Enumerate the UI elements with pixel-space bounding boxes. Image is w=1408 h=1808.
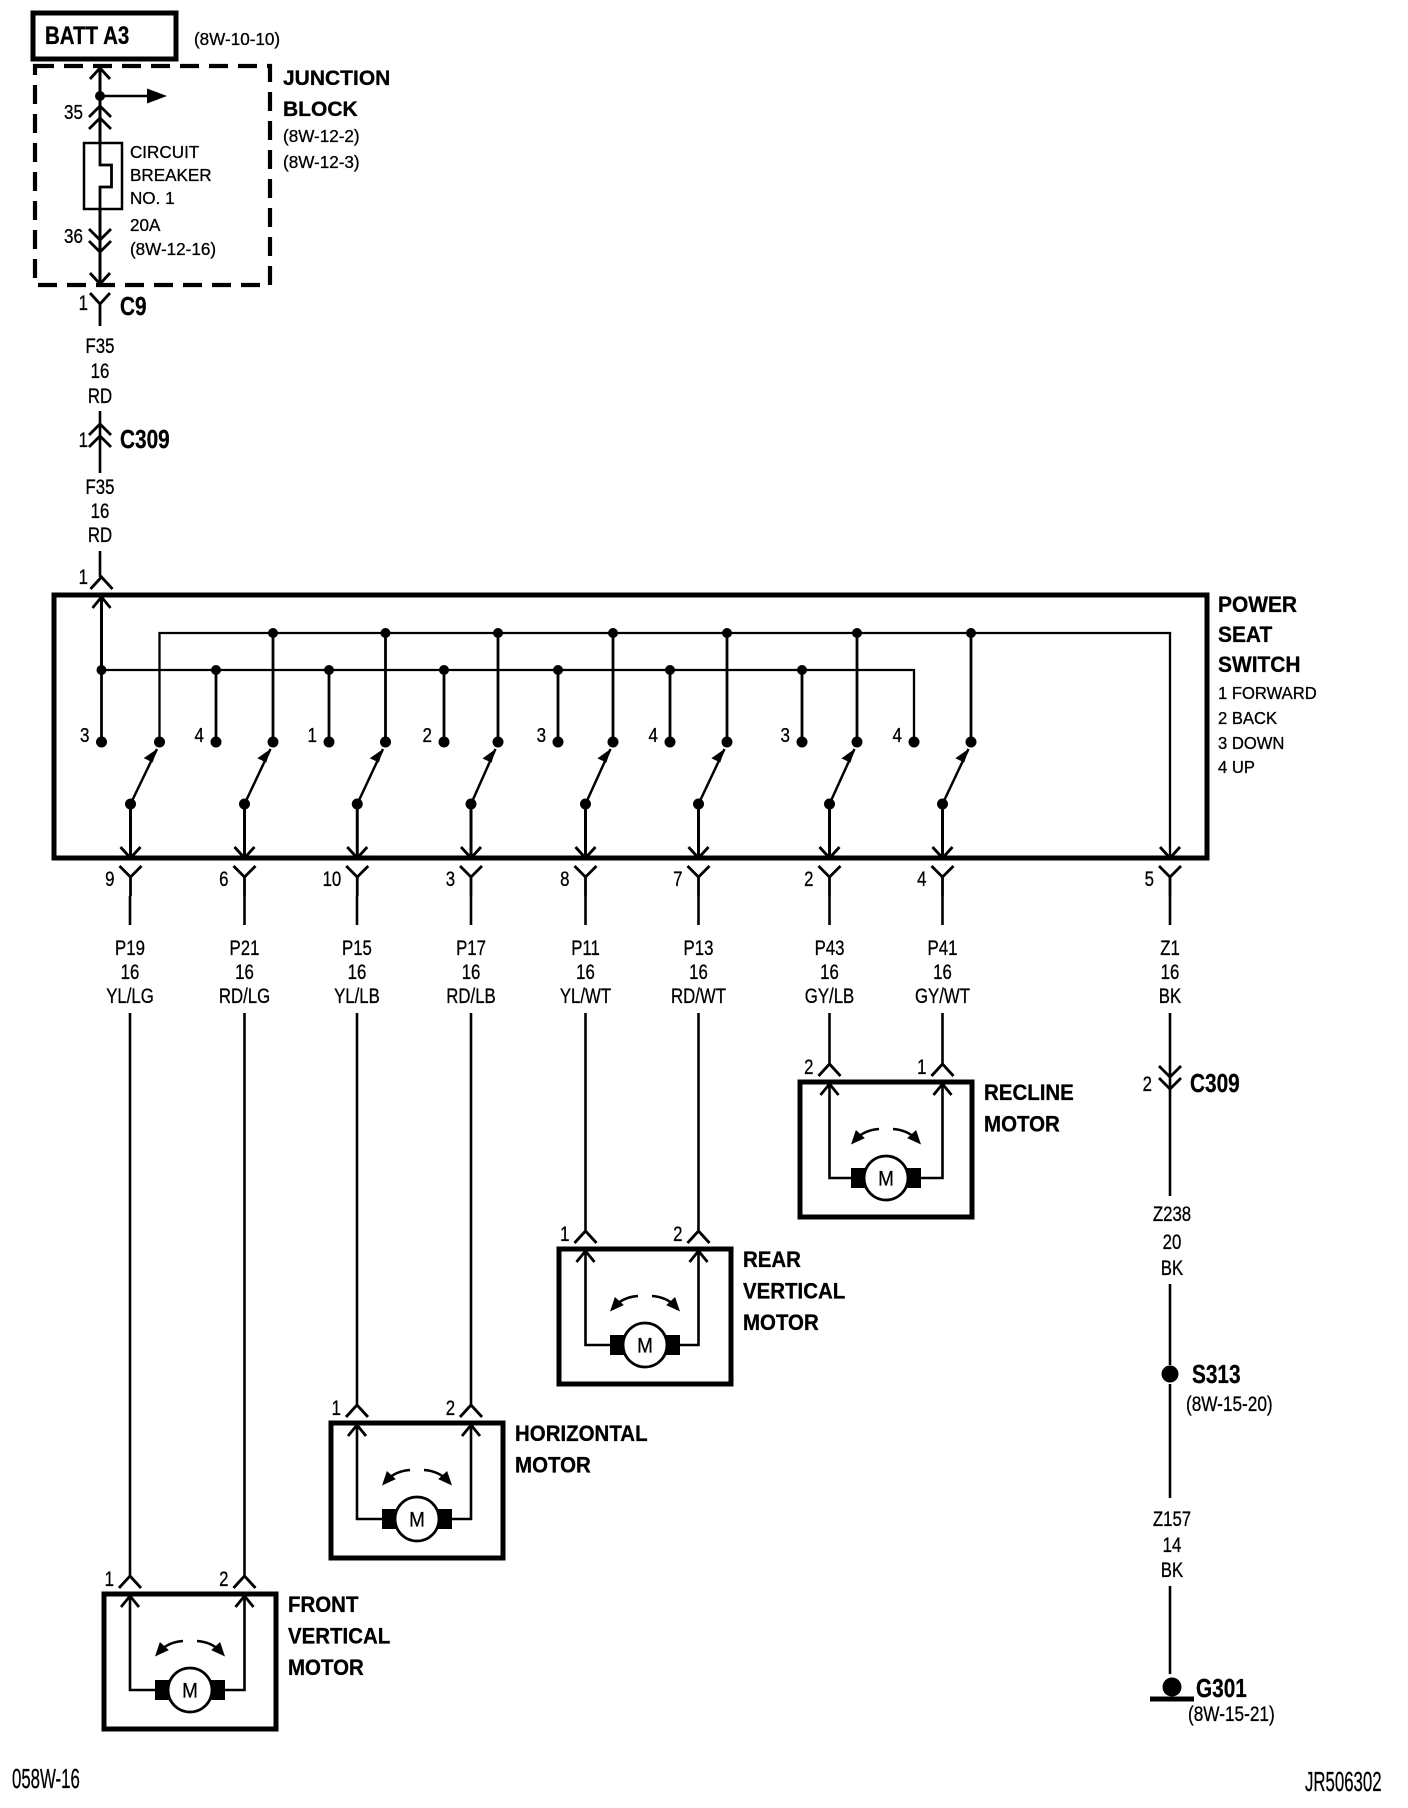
svg-text:2: 2 bbox=[423, 724, 432, 747]
svg-text:1: 1 bbox=[79, 429, 88, 452]
label recline motor bbox=[984, 1080, 1074, 1136]
contact 1 of switch 3 bbox=[308, 724, 335, 748]
svg-text:16: 16 bbox=[91, 360, 110, 383]
pin 1 of horizontal motor bbox=[332, 1397, 368, 1420]
wire: switch 1 wiper to pin 9 bbox=[121, 804, 141, 858]
svg-text:SEAT: SEAT bbox=[1218, 621, 1273, 647]
svg-text:M: M bbox=[637, 1335, 653, 1358]
wire P11 16 YL/WT bbox=[560, 896, 612, 1230]
wire: pin 2 lead inside bbox=[225, 1596, 254, 1690]
svg-text:058W-16: 058W-16 bbox=[12, 1763, 80, 1795]
svg-text:YL/LB: YL/LB bbox=[334, 985, 380, 1008]
svg-text:2: 2 bbox=[673, 1223, 682, 1246]
svg-text:JUNCTION: JUNCTION bbox=[283, 67, 390, 90]
rotation arrows bbox=[155, 1641, 225, 1657]
svg-text:16: 16 bbox=[689, 961, 708, 984]
svg-text:1: 1 bbox=[332, 1397, 341, 1420]
contact (return) of switch 3 bbox=[380, 737, 391, 748]
svg-text:RD/LG: RD/LG bbox=[219, 985, 270, 1008]
svg-text:GY/LB: GY/LB bbox=[805, 985, 854, 1008]
contact (return) of switch 6 bbox=[722, 737, 733, 748]
wire Z1 16 BK bbox=[1159, 896, 1182, 1196]
svg-text:M: M bbox=[182, 1680, 198, 1703]
svg-text:16: 16 bbox=[933, 961, 952, 984]
node: feed rail tap, switch 7 bbox=[797, 665, 807, 675]
wire: switch 8 wiper to pin 4 bbox=[933, 804, 953, 858]
svg-text:2: 2 bbox=[804, 868, 813, 891]
pin 4 of power seat switch bbox=[917, 866, 953, 896]
svg-text:16: 16 bbox=[1161, 961, 1180, 984]
motor M (recline) bbox=[851, 1156, 921, 1200]
svg-text:1: 1 bbox=[560, 1223, 569, 1246]
svg-text:(8W-15-21): (8W-15-21) bbox=[1188, 1704, 1275, 1727]
wire: switch 7 wiper to pin 2 bbox=[820, 804, 840, 858]
rotation arrows bbox=[382, 1470, 452, 1486]
node: feed rail tap, switch 5 bbox=[553, 665, 563, 675]
wire: switch 4 wiper to pin 3 bbox=[461, 804, 481, 858]
svg-text:16: 16 bbox=[235, 961, 254, 984]
svg-text:1: 1 bbox=[79, 292, 88, 315]
ground G301 bbox=[1150, 1674, 1275, 1727]
svg-text:P11: P11 bbox=[571, 937, 600, 960]
svg-text:3: 3 bbox=[781, 724, 790, 747]
pin 5 of power seat switch bbox=[1145, 866, 1181, 896]
svg-text:2: 2 bbox=[446, 1397, 455, 1420]
svg-text:MOTOR: MOTOR bbox=[984, 1112, 1060, 1137]
svg-text:F35: F35 bbox=[86, 476, 115, 499]
contact (return) of switch 7 bbox=[852, 737, 863, 748]
svg-text:(8W-12-16): (8W-12-16) bbox=[130, 239, 216, 260]
node: return rail tap, switch 4 bbox=[493, 628, 503, 638]
contact (return) of switch 5 bbox=[608, 737, 619, 748]
node: feed rail junction at pin1 bbox=[97, 665, 107, 675]
wire: pin 1 lead inside bbox=[121, 1596, 155, 1690]
wire P41 16 GY/WT bbox=[915, 896, 970, 1064]
svg-text:3: 3 bbox=[80, 724, 89, 747]
circuit breaker No.1 20A bbox=[84, 143, 122, 209]
svg-text:REAR: REAR bbox=[743, 1247, 801, 1272]
svg-text:M: M bbox=[409, 1509, 425, 1532]
svg-text:BK: BK bbox=[1161, 1559, 1184, 1582]
svg-text:RD/WT: RD/WT bbox=[671, 985, 726, 1008]
svg-text:P17: P17 bbox=[456, 937, 486, 960]
wire: pin 2 lead inside bbox=[680, 1251, 708, 1345]
switch arm 4 bbox=[466, 749, 496, 810]
svg-text:HORIZONTAL: HORIZONTAL bbox=[515, 1421, 648, 1446]
svg-text:MOTOR: MOTOR bbox=[743, 1310, 819, 1335]
svg-text:2: 2 bbox=[219, 1568, 228, 1591]
battery feed box BATT A3 bbox=[33, 13, 176, 59]
svg-text:1: 1 bbox=[105, 1568, 114, 1591]
pin 1 of recline motor bbox=[917, 1056, 953, 1079]
svg-text:M: M bbox=[878, 1168, 894, 1191]
svg-text:35: 35 bbox=[64, 101, 83, 124]
svg-text:7: 7 bbox=[673, 868, 682, 891]
svg-text:NO. 1: NO. 1 bbox=[130, 188, 175, 209]
switch arm 6 bbox=[693, 749, 725, 810]
node: feed rail tap, switch 4 bbox=[439, 665, 449, 675]
wire P21 16 RD/LG bbox=[219, 896, 270, 1576]
wire P15 16 YL/LB bbox=[334, 896, 380, 1404]
svg-text:C309: C309 bbox=[1190, 1069, 1240, 1098]
wire: pin 2 lead inside bbox=[452, 1425, 480, 1519]
svg-text:1: 1 bbox=[79, 566, 88, 589]
bus: battery feed rail (lower) bbox=[102, 670, 915, 742]
svg-text:C309: C309 bbox=[120, 425, 170, 454]
svg-text:2: 2 bbox=[1143, 1073, 1152, 1096]
label front vertical motor bbox=[288, 1592, 390, 1680]
connector pin 36 (double chevron) bbox=[64, 225, 111, 252]
svg-text:20: 20 bbox=[1163, 1231, 1182, 1254]
svg-text:SWITCH: SWITCH bbox=[1218, 651, 1300, 677]
contact 2 of switch 4 bbox=[423, 724, 450, 748]
svg-text:16: 16 bbox=[91, 500, 110, 523]
motor M (horizontal) bbox=[382, 1497, 452, 1541]
node: junction block splice bbox=[95, 91, 105, 101]
wire: pin 1 lead inside bbox=[348, 1425, 382, 1519]
svg-text:POWER: POWER bbox=[1218, 591, 1297, 617]
rotation arrows bbox=[610, 1296, 680, 1312]
svg-text:YL/LG: YL/LG bbox=[106, 985, 154, 1008]
svg-text:16: 16 bbox=[576, 961, 595, 984]
svg-text:BK: BK bbox=[1159, 985, 1182, 1008]
wire: breaker output to C9 bbox=[90, 209, 110, 284]
svg-text:VERTICAL: VERTICAL bbox=[743, 1279, 845, 1304]
svg-text:16: 16 bbox=[462, 961, 481, 984]
contact (return) of switch 1 bbox=[154, 737, 165, 748]
svg-text:4: 4 bbox=[195, 724, 204, 747]
bus: return rail (upper) to pin 5 bbox=[160, 633, 1171, 858]
motor M (rear) bbox=[610, 1323, 680, 1367]
connector C9 pin 1 bbox=[79, 292, 147, 326]
svg-text:BATT A3: BATT A3 bbox=[45, 21, 129, 49]
svg-text:4: 4 bbox=[893, 724, 902, 747]
wire P43 16 GY/LB bbox=[805, 896, 854, 1064]
power seat switch box bbox=[54, 595, 1207, 858]
svg-text:P21: P21 bbox=[230, 937, 260, 960]
svg-text:Z238: Z238 bbox=[1153, 1203, 1191, 1226]
svg-text:36: 36 bbox=[64, 225, 83, 248]
node: return rail tap, switch 7 bbox=[852, 628, 862, 638]
svg-text:P15: P15 bbox=[342, 937, 372, 960]
contact 3 of switch 5 bbox=[537, 724, 564, 748]
svg-text:16: 16 bbox=[820, 961, 839, 984]
svg-text:16: 16 bbox=[121, 961, 140, 984]
svg-text:8: 8 bbox=[560, 868, 569, 891]
svg-text:P43: P43 bbox=[815, 937, 845, 960]
svg-text:CIRCUIT: CIRCUIT bbox=[130, 142, 200, 163]
switch arm 1 bbox=[125, 749, 157, 810]
wire: pin 1 lead inside bbox=[577, 1251, 611, 1345]
svg-text:14: 14 bbox=[1163, 1534, 1182, 1557]
svg-text:C9: C9 bbox=[120, 292, 147, 321]
svg-text:1: 1 bbox=[308, 724, 317, 747]
wire P17 16 RD/LB bbox=[446, 896, 495, 1404]
wire: battery feed down from BATT A3 bbox=[90, 68, 110, 143]
label rear vertical motor bbox=[743, 1247, 845, 1335]
svg-text:RECLINE: RECLINE bbox=[984, 1080, 1074, 1105]
svg-text:Z157: Z157 bbox=[1153, 1508, 1191, 1531]
pin 6 of power seat switch bbox=[219, 866, 255, 896]
connector C309 pin 2 bbox=[1143, 1066, 1240, 1098]
pin 3 of power seat switch bbox=[446, 866, 482, 896]
wire: pin 2 lead inside bbox=[821, 1084, 852, 1178]
svg-text:JR506302: JR506302 bbox=[1305, 1766, 1382, 1798]
pin 7 of power seat switch bbox=[673, 866, 709, 896]
pin 2 of front motor bbox=[219, 1568, 255, 1591]
wire F35 16 RD (lower) bbox=[86, 476, 115, 577]
wire P13 16 RD/WT bbox=[671, 896, 726, 1230]
switch arm 8 bbox=[937, 749, 969, 810]
power seat switch pin 1 bbox=[79, 566, 113, 589]
svg-text:BREAKER: BREAKER bbox=[130, 165, 212, 186]
svg-text:YL/WT: YL/WT bbox=[560, 985, 612, 1008]
svg-text:RD: RD bbox=[88, 524, 112, 547]
svg-text:1 FORWARD: 1 FORWARD bbox=[1218, 684, 1317, 703]
svg-text:VERTICAL: VERTICAL bbox=[288, 1624, 390, 1649]
wire: switch 5 wiper to pin 8 bbox=[576, 804, 596, 858]
contact (return) of switch 8 bbox=[966, 737, 977, 748]
contact 4 of switch 6 bbox=[649, 724, 676, 748]
svg-text:2: 2 bbox=[804, 1056, 813, 1079]
svg-text:P13: P13 bbox=[684, 937, 714, 960]
svg-text:4: 4 bbox=[917, 868, 927, 891]
svg-text:5: 5 bbox=[1145, 868, 1154, 891]
svg-text:FRONT: FRONT bbox=[288, 1592, 358, 1617]
svg-text:F35: F35 bbox=[86, 335, 115, 358]
switch arm 5 bbox=[580, 749, 611, 810]
svg-text:(8W-10-10): (8W-10-10) bbox=[194, 29, 280, 50]
svg-text:20A: 20A bbox=[130, 215, 161, 236]
contact 4 of switch 8 bbox=[893, 724, 920, 748]
node: return rail tap, switch 2 bbox=[268, 628, 278, 638]
svg-text:2 BACK: 2 BACK bbox=[1218, 709, 1278, 728]
pin 2 of recline motor bbox=[804, 1056, 840, 1079]
rotation arrows bbox=[851, 1129, 921, 1145]
pin 1 of rear motor bbox=[560, 1223, 596, 1246]
svg-text:MOTOR: MOTOR bbox=[288, 1655, 364, 1680]
contact 4 of switch 2 bbox=[195, 724, 222, 748]
node: feed rail tap, switch 3 bbox=[324, 665, 334, 675]
svg-text:(8W-12-3): (8W-12-3) bbox=[283, 152, 360, 173]
pin 1 of front motor bbox=[105, 1568, 141, 1591]
motor M (front) bbox=[155, 1668, 225, 1712]
pin 2 of rear motor bbox=[673, 1223, 709, 1246]
switch arm 3 bbox=[352, 749, 383, 810]
svg-text:(8W-12-2): (8W-12-2) bbox=[283, 126, 360, 147]
node: feed rail tap, switch 6 bbox=[665, 665, 675, 675]
wire: switch 6 wiper to pin 7 bbox=[689, 804, 709, 858]
contact (return) of switch 4 bbox=[493, 737, 504, 748]
svg-text:4 UP: 4 UP bbox=[1218, 758, 1255, 777]
pin 2 of power seat switch bbox=[804, 866, 840, 896]
wire Z157 14 BK bbox=[1153, 1384, 1191, 1674]
svg-text:3: 3 bbox=[446, 868, 455, 891]
svg-text:S313: S313 bbox=[1192, 1360, 1241, 1389]
wire: feed to other circuits (right arrow) bbox=[100, 89, 167, 104]
node: return rail tap, switch 8 bbox=[966, 628, 976, 638]
svg-text:3 DOWN: 3 DOWN bbox=[1218, 734, 1284, 753]
svg-text:RD/LB: RD/LB bbox=[446, 985, 495, 1008]
svg-text:4: 4 bbox=[649, 724, 658, 747]
svg-text:MOTOR: MOTOR bbox=[515, 1453, 591, 1478]
svg-text:(8W-15-20): (8W-15-20) bbox=[1186, 1394, 1273, 1417]
node: return rail tap, switch 3 bbox=[381, 628, 391, 638]
svg-text:BLOCK: BLOCK bbox=[283, 98, 358, 121]
node: feed rail tap, switch 2 bbox=[211, 665, 221, 675]
contact 3 of switch 1 bbox=[80, 724, 107, 748]
svg-text:16: 16 bbox=[348, 961, 367, 984]
connector C309 pin 1 bbox=[79, 424, 170, 454]
front vertical motor box bbox=[104, 1594, 276, 1729]
svg-text:P41: P41 bbox=[928, 937, 958, 960]
pin 2 of horizontal motor bbox=[446, 1397, 482, 1420]
contact 3 of switch 7 bbox=[781, 724, 808, 748]
wire: feed into switch bbox=[93, 597, 111, 670]
svg-text:G301: G301 bbox=[1196, 1674, 1247, 1703]
junction block label bbox=[283, 67, 390, 172]
wire F35 16 RD (upper) bbox=[86, 335, 115, 473]
connector pin 35 (double chevron) bbox=[64, 101, 111, 129]
svg-text:6: 6 bbox=[219, 868, 228, 891]
svg-text:Z1: Z1 bbox=[1160, 937, 1180, 960]
pin 10 of power seat switch bbox=[323, 866, 369, 896]
svg-text:10: 10 bbox=[323, 868, 342, 891]
splice S313 bbox=[1162, 1360, 1273, 1417]
switch arm 2 bbox=[239, 749, 271, 810]
pin 8 of power seat switch bbox=[560, 866, 596, 896]
node: return rail tap, switch 5 bbox=[608, 628, 618, 638]
svg-text:P19: P19 bbox=[115, 937, 145, 960]
svg-text:3: 3 bbox=[537, 724, 546, 747]
svg-text:GY/WT: GY/WT bbox=[915, 985, 970, 1008]
node: return rail tap, switch 6 bbox=[722, 628, 732, 638]
rear vertical motor box bbox=[559, 1249, 731, 1384]
wire: return rail exits to pin 5 bbox=[1160, 847, 1180, 858]
power seat switch label bbox=[1218, 591, 1317, 777]
horizontal motor box bbox=[331, 1423, 503, 1558]
wire Z238 20 BK bbox=[1153, 1203, 1191, 1365]
contact (return) of switch 2 bbox=[268, 737, 279, 748]
switch arm 7 bbox=[824, 749, 855, 810]
wire P19 16 YL/LG bbox=[106, 896, 154, 1576]
wire: pin 1 lead inside bbox=[921, 1084, 952, 1178]
svg-text:9: 9 bbox=[105, 868, 114, 891]
pin 9 of power seat switch bbox=[105, 866, 141, 896]
wire: switch 3 wiper to pin 10 bbox=[347, 804, 367, 858]
junction block dashed outline bbox=[35, 66, 270, 285]
wire: switch 2 wiper to pin 6 bbox=[235, 804, 255, 858]
svg-text:BK: BK bbox=[1161, 1257, 1184, 1280]
recline motor box bbox=[800, 1082, 972, 1217]
svg-text:1: 1 bbox=[917, 1056, 926, 1079]
circuit breaker label bbox=[130, 142, 216, 260]
label horizontal motor bbox=[515, 1421, 648, 1477]
svg-text:RD: RD bbox=[88, 385, 112, 408]
